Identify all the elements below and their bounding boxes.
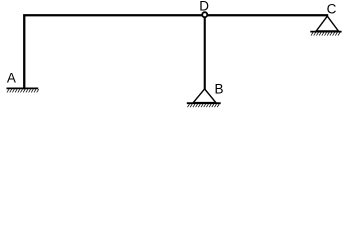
ground: fixed support A xyxy=(7,88,39,92)
svg-text:C: C xyxy=(327,1,337,16)
svg-text:B: B xyxy=(215,82,224,97)
support C: pin (triangle) xyxy=(316,16,338,31)
hinge D (circle) xyxy=(202,12,207,17)
ground: support B base xyxy=(187,103,221,107)
wire: frame members (column A-corner, beam corner-D-C) xyxy=(24,15,328,89)
ground: support C base xyxy=(310,32,341,36)
wire: member D-B xyxy=(204,15,206,89)
svg-text:A: A xyxy=(7,71,16,86)
svg-text:D: D xyxy=(199,0,209,13)
support B: pin (triangle) xyxy=(193,89,216,103)
